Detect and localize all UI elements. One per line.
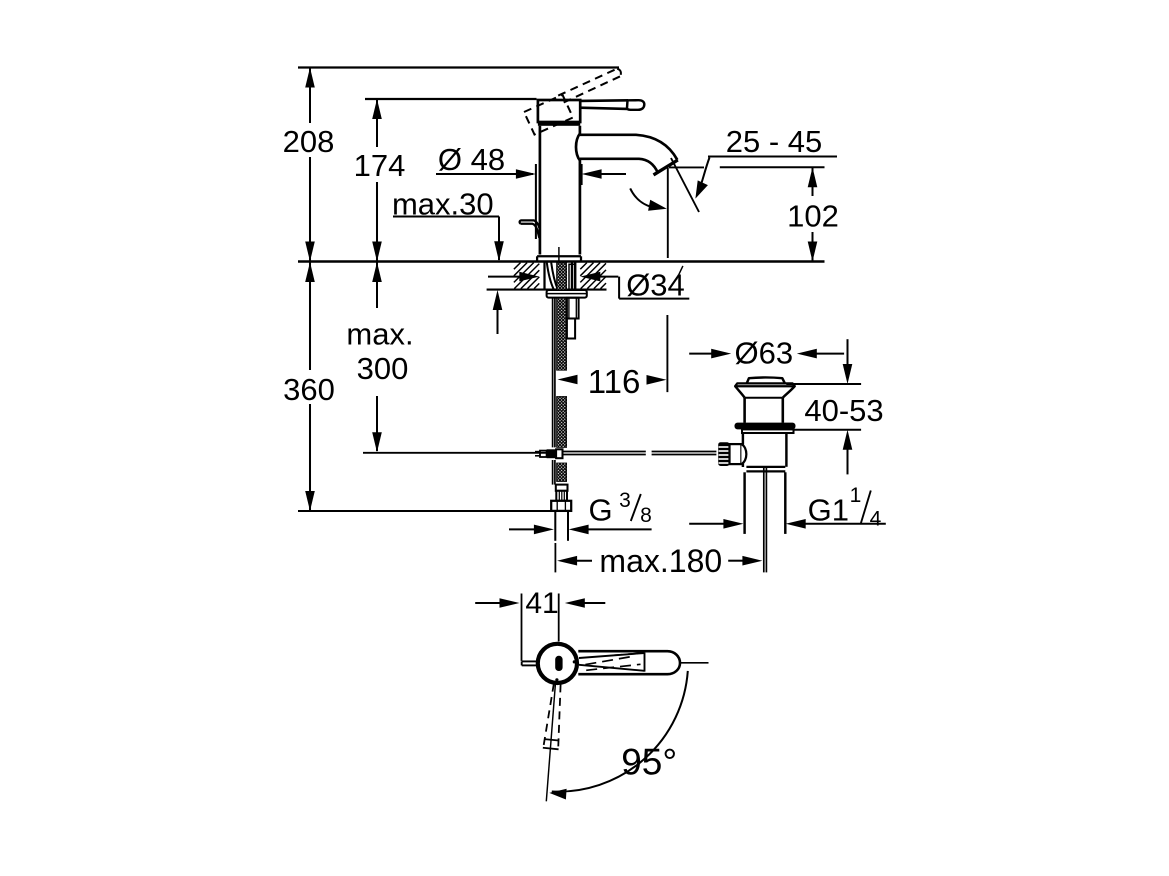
svg-text:360: 360 [283, 372, 335, 407]
svg-text:25 - 45: 25 - 45 [726, 124, 823, 159]
svg-text:102: 102 [787, 198, 839, 233]
svg-text:max.: max. [346, 317, 413, 352]
svg-text:1: 1 [850, 484, 862, 507]
svg-text:G1: G1 [808, 492, 849, 527]
svg-text:Ø34: Ø34 [626, 268, 685, 303]
svg-text:95°: 95° [621, 742, 677, 783]
svg-text:Ø63: Ø63 [734, 336, 793, 371]
svg-text:40-53: 40-53 [804, 393, 883, 428]
svg-text:41: 41 [525, 587, 558, 620]
svg-text:3: 3 [619, 489, 631, 512]
svg-text:174: 174 [354, 148, 406, 183]
svg-text:8: 8 [640, 504, 652, 527]
svg-text:300: 300 [357, 351, 409, 386]
svg-text:116: 116 [588, 363, 641, 400]
svg-text:4: 4 [870, 508, 882, 531]
svg-text:G: G [588, 492, 612, 527]
svg-text:208: 208 [283, 124, 335, 159]
svg-text:max.180: max.180 [599, 543, 722, 579]
svg-text:Ø 48: Ø 48 [438, 142, 505, 177]
